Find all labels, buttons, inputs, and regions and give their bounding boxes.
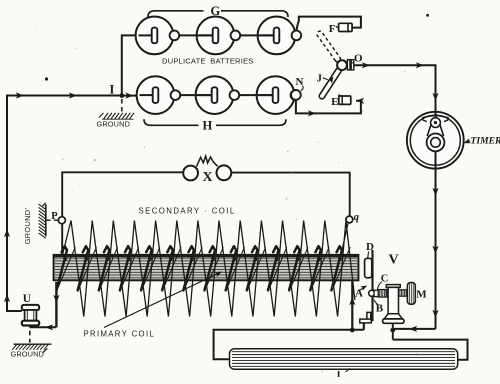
svg-text:I: I <box>110 83 115 97</box>
svg-text:A: A <box>355 288 363 300</box>
svg-text:O: O <box>354 53 363 65</box>
svg-text:X: X <box>203 170 213 185</box>
svg-text:GROUND’: GROUND’ <box>23 208 32 245</box>
svg-text:B: B <box>376 302 384 314</box>
svg-text:SECONDARY · COIL: SECONDARY · COIL <box>139 206 236 215</box>
svg-text:U: U <box>23 293 32 305</box>
svg-text:G: G <box>211 4 221 18</box>
svg-text:M: M <box>416 288 427 300</box>
svg-text:N: N <box>296 76 304 88</box>
svg-text:P: P <box>51 211 58 222</box>
svg-text:GROUND: GROUND <box>97 119 130 128</box>
svg-text:GROUND: GROUND <box>11 349 44 358</box>
svg-text:TIMER: TIMER <box>471 136 500 147</box>
svg-text:DUPLICATE BATTERIES: DUPLICATE BATTERIES <box>162 57 254 66</box>
svg-text:V: V <box>389 253 399 268</box>
svg-text:D: D <box>366 241 374 253</box>
svg-text:H: H <box>203 118 213 132</box>
svg-text:J: J <box>317 73 323 85</box>
svg-text:PRIMARY COIL: PRIMARY COIL <box>84 329 156 338</box>
svg-text:F: F <box>329 23 336 35</box>
svg-text:C: C <box>381 273 389 284</box>
svg-text:E: E <box>331 96 338 108</box>
svg-text:q: q <box>354 212 359 223</box>
